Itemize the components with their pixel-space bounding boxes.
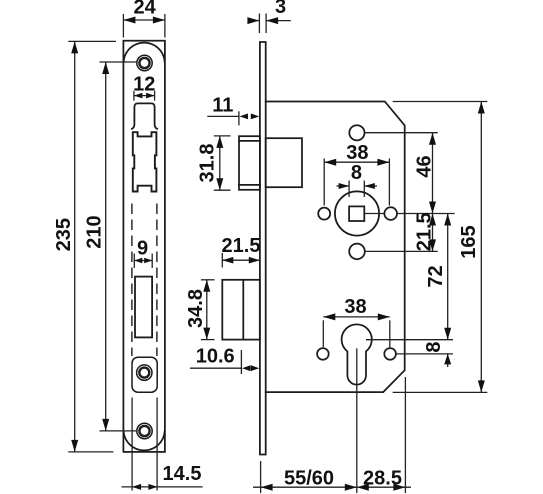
dim 38 top line: [324, 161, 389, 163]
dim 24 line: [123, 19, 164, 21]
middle screw hole outer: [137, 365, 152, 380]
dim 235 line: [74, 41, 76, 452]
dim 55/60 and 28.5 line: [253, 486, 411, 488]
dim 38 lower line: [323, 316, 390, 318]
svg-text:12: 12: [133, 73, 155, 95]
svg-text:235: 235: [53, 218, 75, 251]
svg-text:21.5: 21.5: [222, 235, 261, 257]
dim 34.8 extension ticks: [201, 279, 215, 281]
arrows dim 31.8: [216, 136, 223, 148]
faceplate front view outline: [123, 41, 164, 452]
dim 21.5 (deadbolt) tick: [221, 253, 223, 268]
dim 210 leader bottom: [100, 430, 137, 432]
svg-text:31.8: 31.8: [196, 144, 218, 183]
bottom dims extension lines: [260, 461, 262, 493]
dim 235 extension bottom: [68, 451, 113, 453]
latch bolt seen in faceplate: [133, 132, 157, 191]
lock case outline: [266, 102, 405, 393]
lower fixing hole: [349, 244, 365, 260]
arrows dim 21.5 deadbolt: [222, 257, 233, 264]
svg-text:55/60: 55/60: [284, 467, 334, 489]
dim 31.8 extension ticks: [214, 135, 231, 137]
deadbolt side view: [222, 280, 259, 340]
arrows dim 235: [71, 41, 78, 53]
arrows dim 38 top: [324, 159, 336, 166]
dim 8 euro lower arrow tail: [447, 354, 449, 367]
svg-text:3: 3: [275, 0, 286, 18]
arrows dim 10.6: [242, 365, 251, 371]
euro right hole: [384, 348, 396, 360]
arrows dim 9: [134, 258, 142, 264]
dim 9 extension ticks: [133, 254, 135, 269]
dim 11 tick: [238, 111, 240, 125]
arrows dim 28.5: [357, 484, 369, 491]
dim 10.6 tick: [240, 350, 242, 374]
svg-text:8: 8: [423, 341, 445, 352]
dim 210 line: [105, 62, 107, 431]
latch bolt head side view: [239, 136, 260, 190]
dim 31.8 line: [219, 136, 221, 190]
dimension graphics inserted here: [68, 14, 487, 494]
dim 38 top extension lines: [323, 159, 325, 206]
middle screw hole inner: [139, 368, 149, 378]
case top extension line: [393, 101, 488, 103]
dim 21.5 (deadbolt) line: [222, 259, 259, 261]
arrows dim 14.5: [132, 484, 141, 490]
bottom screw hole inner: [139, 426, 149, 436]
dim 12 extension ticks: [133, 91, 135, 101]
dim 72 line: [447, 214, 449, 340]
top screw hole outer: [137, 55, 152, 70]
top screw hole inner: [139, 58, 149, 68]
hidden inner-plate dashed lines: [132, 204, 157, 357]
arrow dim 8 euro lower (outside): [444, 354, 451, 365]
dim 235 extension top: [68, 40, 116, 42]
svg-text:72: 72: [425, 265, 447, 287]
faceplate bottom rounded-end arc: [124, 431, 165, 450]
dim 46 / 21.5 line: [432, 133, 434, 252]
arrows dim 11: [240, 114, 249, 120]
screw adjustment slot: [132, 357, 157, 392]
arrows dim 24: [123, 17, 135, 24]
dim 8 spindle extension lines: [348, 181, 350, 198]
dim 165 line: [480, 102, 482, 393]
hub left hole: [318, 208, 330, 220]
euro center leader: [366, 339, 453, 341]
euro left hole: [317, 348, 329, 360]
dim 210 leader top: [100, 61, 137, 63]
dim 34.8 line: [206, 280, 208, 340]
arrows dim 165: [478, 102, 485, 114]
svg-text:14.5: 14.5: [163, 463, 202, 485]
dim 3 leader lines: [248, 20, 260, 22]
svg-text:38: 38: [344, 296, 366, 318]
euro cylinder keyhole: [342, 324, 372, 384]
faceplate side view (3mm plate): [260, 42, 266, 455]
arrows dim 72: [444, 214, 451, 226]
svg-text:34.8: 34.8: [185, 289, 207, 328]
dim 14.5 extension lines: [131, 398, 133, 491]
arrows dim 8 spindle (outside): [339, 183, 350, 189]
dim 11 leader: [207, 115, 239, 117]
dim 10.6 leader: [190, 367, 241, 369]
lower hole leader: [365, 250, 438, 252]
dim 38 lower extension lines: [322, 320, 324, 347]
latch body inside case: [266, 138, 302, 187]
spindle square hole: [349, 206, 364, 221]
faceplate top rounded-end arc: [124, 43, 165, 62]
svg-text:10.6: 10.6: [196, 346, 235, 368]
arrows dim 210: [102, 62, 109, 74]
svg-text:28.5: 28.5: [363, 467, 402, 489]
arrows dim 12: [134, 93, 143, 99]
arrows dim 38 lower: [323, 313, 335, 320]
bottom screw hole outer: [137, 423, 152, 438]
dim 8 spindle arrow tails: [337, 185, 350, 187]
dim 9 line: [134, 260, 152, 262]
svg-text:210: 210: [84, 215, 106, 248]
svg-text:38: 38: [346, 142, 368, 164]
arrows dim 55/60: [261, 484, 273, 491]
arrows dim 21.5 right: [429, 214, 436, 226]
svg-text:165: 165: [458, 225, 480, 258]
dim 24 extension lines: [122, 14, 124, 38]
arrows dim 34.8: [203, 280, 210, 292]
svg-text:21.5: 21.5: [414, 212, 436, 251]
arrows dim 3 (outside): [247, 17, 259, 24]
svg-text:8: 8: [351, 162, 362, 184]
top hole leader: [365, 132, 438, 134]
dim 14.5 line: [122, 486, 203, 488]
hub leader to right: [364, 213, 384, 215]
deadbolt cutout in faceplate: [135, 277, 152, 338]
case bottom extension line: [393, 391, 488, 393]
svg-text:11: 11: [212, 94, 233, 116]
follower hub circle: [335, 191, 379, 235]
arrows dim 46: [429, 133, 436, 145]
svg-text:9: 9: [137, 238, 148, 260]
dim 12 line: [134, 95, 155, 97]
dim 3 extension lines: [258, 14, 260, 34]
euro side hole leader: [396, 353, 453, 355]
svg-text:46: 46: [414, 155, 436, 177]
latch opening in faceplate: [132, 103, 157, 128]
hub right hole: [384, 207, 397, 220]
top fixing hole: [349, 125, 364, 140]
svg-text:24: 24: [133, 0, 156, 19]
